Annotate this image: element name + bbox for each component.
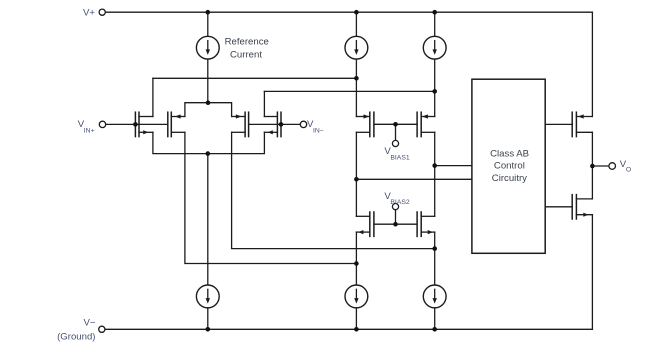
transistor Q5 (NMOS cascode, lower left) — [356, 212, 374, 236]
svg-text:BIAS2: BIAS2 — [390, 199, 409, 206]
node: V- rail / I6 — [432, 327, 437, 332]
svg-text:V+: V+ — [83, 8, 95, 19]
wire: NMOS pair source rail — [153, 132, 265, 153]
transistor Q3 (PMOS input, inner right) — [232, 112, 249, 136]
terminal V- (Ground) — [99, 326, 105, 332]
node: output — [590, 164, 595, 169]
wire: Q4 drain up to line B — [263, 91, 265, 116]
svg-text:BIAS1: BIAS1 — [390, 154, 409, 161]
node: VIN+ at Q1 gate — [133, 122, 138, 127]
current source I5 (bottom middle) — [345, 232, 368, 329]
wire: Q1 drain up to line A — [152, 78, 154, 116]
svg-text:Current: Current — [230, 49, 262, 60]
current source I6 (bottom right) — [423, 232, 446, 329]
node: VIN- at Q4 gate — [279, 122, 284, 127]
node: line D at I5 — [354, 261, 359, 266]
transistor Q10 (NMOS output) — [572, 195, 592, 219]
node: VBIAS2 junction — [393, 222, 398, 227]
wire: right cascode node into Class AB box — [435, 165, 472, 167]
wire: box to Q10 gate — [545, 206, 572, 208]
terminal VIN- — [300, 121, 306, 127]
wire: left cascode node into Class AB box — [356, 178, 472, 180]
transistor Q1 (NMOS input, outer left) — [135, 112, 153, 136]
wire: right cascode vertical Q8 to Q6 — [434, 132, 436, 216]
svg-text:Reference: Reference — [225, 37, 269, 48]
current source I1 (Reference Current) — [196, 12, 219, 103]
wire: right vertical from Q10 source to V- rail — [591, 215, 593, 330]
Class AB Control Circuitry box U1 — [472, 79, 545, 253]
wire: box to Q9 gate — [545, 123, 572, 125]
transistor Q6 (NMOS cascode, lower right) — [417, 212, 435, 236]
wire: V+ top rail — [105, 11, 592, 13]
current source I4 (bottom left tail) — [196, 154, 219, 330]
wire: line B (Q4 drain to I3 node) — [264, 90, 434, 92]
node: line C at I6 — [432, 246, 437, 251]
wire: left cascode vertical Q7 to Q5 — [355, 132, 357, 216]
node: V+ rail / I2 — [354, 10, 359, 15]
transistor Q4 (NMOS input, outer right) — [264, 112, 281, 136]
wire: right vertical from V+ rail to Q9 drain — [591, 12, 593, 116]
node: PMOS bridge tail — [206, 100, 211, 105]
wire: VIN+ gate net — [106, 123, 168, 125]
node: NMOS tail — [206, 151, 211, 156]
transistor Q9 (PMOS output) — [572, 112, 592, 136]
wire: Q5/Q6 gate net VBIAS2 — [374, 223, 417, 225]
current source I2 (top middle) — [345, 12, 368, 116]
svg-text:IN−: IN− — [313, 127, 324, 134]
svg-text:IN+: IN+ — [84, 127, 95, 134]
svg-text:O: O — [626, 166, 631, 173]
terminal VO — [609, 163, 616, 170]
wire: VBIAS2 stem — [395, 210, 397, 225]
svg-text:V−: V− — [83, 317, 95, 328]
wire: PMOS pair source bridge — [185, 103, 232, 117]
svg-text:(Ground): (Ground) — [57, 332, 95, 343]
transistor Q7 (PMOS cascode, upper left) — [356, 112, 374, 136]
transistor Q2 (PMOS input, inner left) — [168, 112, 185, 136]
wire: Q3 drain down and right to I6 node — [232, 132, 435, 248]
current source I3 (top right) — [423, 12, 446, 116]
terminal V+ — [99, 9, 105, 15]
wire: output node vertical Q9 source to Q10 drain — [591, 132, 593, 199]
svg-text:Circuitry: Circuitry — [492, 173, 527, 184]
node: right cascode tap — [432, 163, 437, 168]
wire: line A (Q1 drain to I2 node) — [153, 77, 357, 79]
wire: VIN- gate net — [249, 123, 301, 125]
wire: output node to VO terminal — [592, 165, 609, 167]
node: V+ rail / I3 — [432, 10, 437, 15]
node: line B at I3 — [432, 89, 437, 94]
wire: Q2 drain down and right to I5 node — [185, 132, 357, 263]
wire: V- bottom rail — [105, 328, 592, 330]
node: V- rail / I5 — [354, 327, 359, 332]
node: left cascode tap — [354, 177, 359, 182]
svg-text:Class AB: Class AB — [490, 149, 529, 160]
node: V- rail / I4 — [206, 327, 211, 332]
wire: Q7/Q8 gate net VBIAS1 — [374, 123, 417, 125]
terminal VIN+ — [99, 121, 105, 127]
wire: VBIAS1 stem — [395, 124, 397, 140]
svg-text:Control: Control — [494, 161, 525, 172]
node: VBIAS1 junction — [393, 122, 398, 127]
node: line A at I2 — [354, 76, 359, 81]
transistor Q8 (PMOS cascode, upper right) — [417, 112, 435, 136]
node: V+ rail / I1 — [206, 10, 211, 15]
terminal VBIAS2 — [392, 204, 398, 210]
terminal VBIAS1 — [392, 140, 398, 146]
